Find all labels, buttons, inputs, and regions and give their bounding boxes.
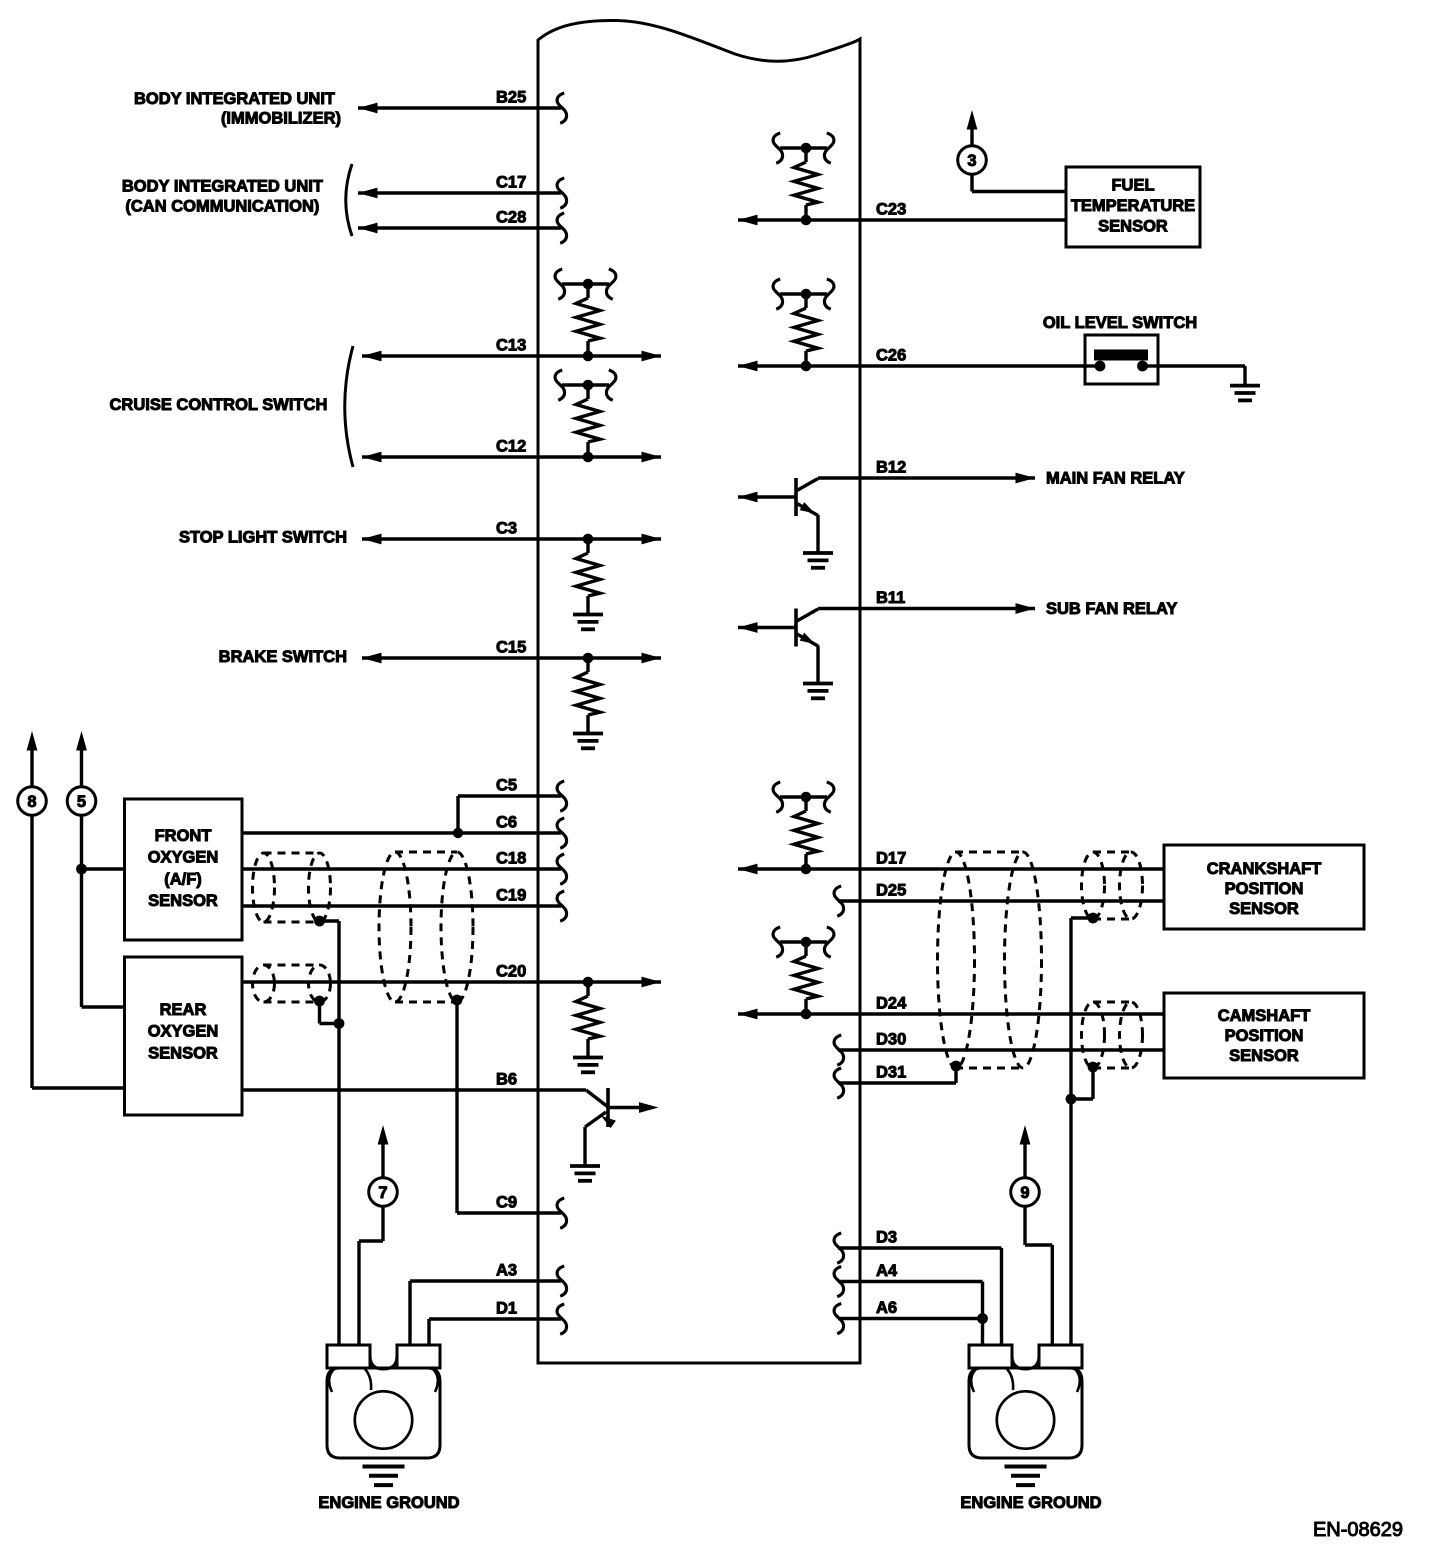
svg-text:3: 3	[967, 152, 976, 170]
svg-text:A6: A6	[876, 1299, 897, 1317]
svg-text:OXYGEN: OXYGEN	[148, 849, 219, 867]
svg-text:B6: B6	[496, 1071, 517, 1089]
svg-text:CAMSHAFT: CAMSHAFT	[1218, 1007, 1311, 1025]
svg-text:5: 5	[77, 793, 86, 811]
svg-text:C5: C5	[496, 777, 517, 795]
svg-text:B25: B25	[496, 89, 526, 107]
svg-text:ENGINE GROUND: ENGINE GROUND	[318, 1494, 459, 1512]
svg-text:D30: D30	[876, 1031, 906, 1049]
svg-text:OXYGEN: OXYGEN	[148, 1023, 219, 1041]
svg-text:C23: C23	[876, 201, 906, 219]
svg-text:BRAKE SWITCH: BRAKE SWITCH	[219, 648, 347, 666]
svg-text:D31: D31	[876, 1064, 906, 1082]
svg-text:C18: C18	[496, 850, 526, 868]
svg-text:CRUISE CONTROL SWITCH: CRUISE CONTROL SWITCH	[110, 396, 328, 414]
svg-text:C15: C15	[496, 639, 526, 657]
svg-text:D3: D3	[876, 1229, 897, 1247]
svg-text:C20: C20	[496, 963, 526, 981]
svg-text:BODY INTEGRATED UNIT: BODY INTEGRATED UNIT	[122, 178, 323, 196]
svg-text:SENSOR: SENSOR	[1229, 1047, 1299, 1065]
svg-text:C13: C13	[496, 337, 526, 355]
svg-text:POSITION: POSITION	[1225, 880, 1304, 898]
svg-text:C12: C12	[496, 438, 526, 456]
svg-text:B11: B11	[876, 589, 905, 607]
svg-text:B12: B12	[876, 459, 906, 477]
svg-text:D17: D17	[876, 850, 906, 868]
svg-text:SENSOR: SENSOR	[148, 892, 218, 910]
svg-text:SENSOR: SENSOR	[1098, 218, 1168, 236]
svg-text:(CAN COMMUNICATION): (CAN COMMUNICATION)	[125, 197, 319, 215]
svg-text:TEMPERATURE: TEMPERATURE	[1071, 197, 1195, 215]
svg-text:FUEL: FUEL	[1111, 177, 1154, 195]
svg-text:MAIN FAN RELAY: MAIN FAN RELAY	[1046, 470, 1185, 488]
svg-text:D25: D25	[876, 882, 906, 900]
svg-text:SENSOR: SENSOR	[148, 1044, 218, 1062]
svg-text:CRANKSHAFT: CRANKSHAFT	[1207, 860, 1322, 878]
svg-text:A4: A4	[876, 1262, 898, 1280]
svg-text:FRONT: FRONT	[155, 827, 212, 845]
svg-text:BODY INTEGRATED UNIT: BODY INTEGRATED UNIT	[134, 90, 335, 108]
svg-text:D24: D24	[876, 995, 907, 1013]
svg-text:ENGINE GROUND: ENGINE GROUND	[960, 1494, 1101, 1512]
svg-text:C6: C6	[496, 814, 517, 832]
svg-text:(IMMOBILIZER): (IMMOBILIZER)	[221, 109, 341, 127]
svg-text:C3: C3	[496, 520, 517, 538]
svg-text:C26: C26	[876, 347, 906, 365]
svg-text:EN-08629: EN-08629	[1313, 1519, 1403, 1541]
svg-text:REAR: REAR	[160, 1001, 207, 1019]
svg-text:7: 7	[378, 1184, 387, 1202]
svg-text:OIL LEVEL SWITCH: OIL LEVEL SWITCH	[1043, 314, 1197, 332]
svg-text:SUB FAN RELAY: SUB FAN RELAY	[1046, 600, 1177, 618]
svg-text:9: 9	[1020, 1184, 1029, 1202]
svg-text:C9: C9	[496, 1194, 517, 1212]
svg-text:STOP LIGHT SWITCH: STOP LIGHT SWITCH	[179, 529, 347, 547]
svg-text:SENSOR: SENSOR	[1229, 900, 1299, 918]
svg-text:(A/F): (A/F)	[164, 870, 202, 888]
svg-text:8: 8	[27, 793, 36, 811]
svg-text:C28: C28	[496, 209, 526, 227]
svg-text:POSITION: POSITION	[1225, 1027, 1304, 1045]
svg-text:C19: C19	[496, 887, 526, 905]
svg-text:D1: D1	[496, 1300, 517, 1318]
svg-text:C17: C17	[496, 174, 526, 192]
svg-text:A3: A3	[496, 1262, 517, 1280]
